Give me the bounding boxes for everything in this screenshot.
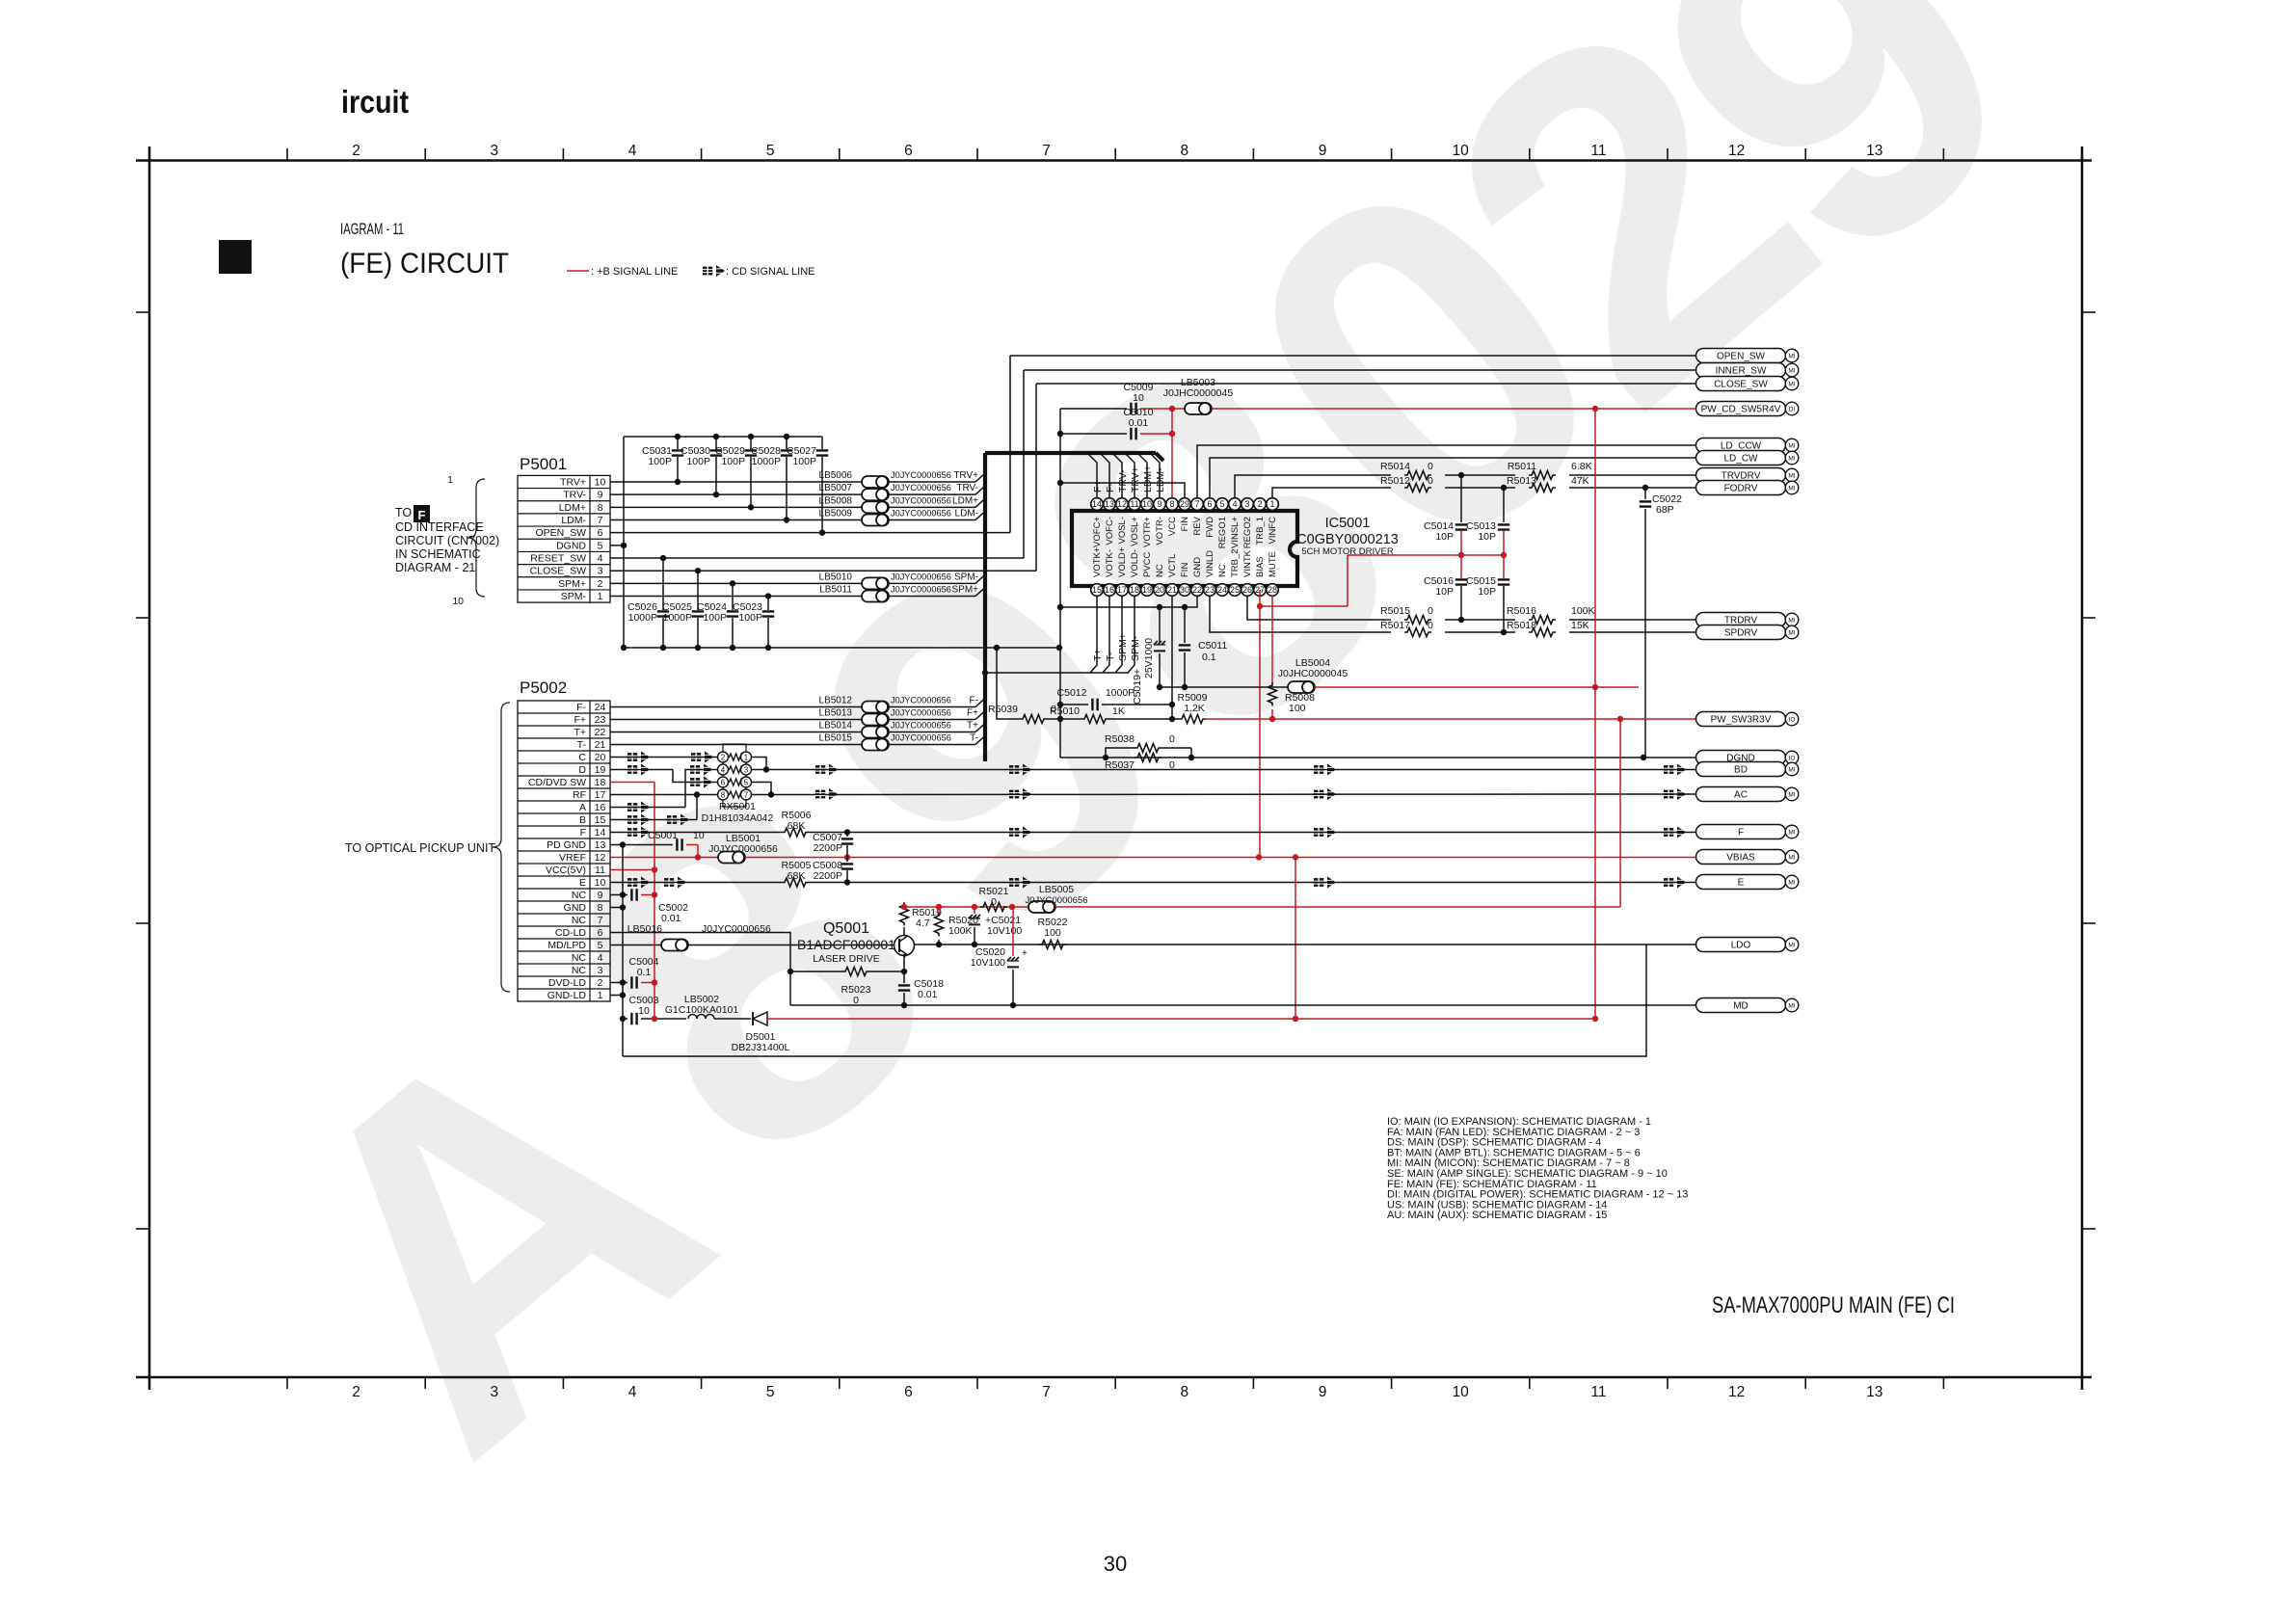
svg-text:11: 11 <box>1590 143 1606 159</box>
svg-text:9: 9 <box>598 490 603 501</box>
svg-text:7: 7 <box>1042 1384 1051 1400</box>
svg-text:MI: MI <box>1788 382 1795 388</box>
svg-text:P5001: P5001 <box>520 455 567 473</box>
wire ground return box <box>623 945 1646 1056</box>
svg-text:68K: 68K <box>788 820 806 832</box>
svg-text:5: 5 <box>598 940 603 951</box>
svg-text:R5039: R5039 <box>988 704 1018 715</box>
svg-text:9: 9 <box>598 890 603 901</box>
resistor R5011 <box>1529 471 1556 480</box>
svg-text:7: 7 <box>598 915 603 926</box>
capacitor C5030 <box>715 437 717 449</box>
svg-text:1: 1 <box>598 990 603 1001</box>
svg-text:SPM-: SPM- <box>954 572 978 582</box>
wire MD line <box>790 1004 1696 1006</box>
resistor R5022 <box>1039 941 1066 949</box>
svg-text:17: 17 <box>1117 585 1127 595</box>
svg-text:9: 9 <box>1319 143 1327 159</box>
capacitor C5019 electrolytic <box>1159 607 1161 642</box>
svg-text:MI: MI <box>1788 830 1795 837</box>
svg-text:1: 1 <box>744 753 749 761</box>
IC5001 pin 1 (VINFC) <box>1267 498 1279 511</box>
svg-text:VREF: VREF <box>559 852 586 864</box>
svg-text:J0JYC0000656: J0JYC0000656 <box>891 495 951 505</box>
svg-text:INNER_SW: INNER_SW <box>1716 366 1767 377</box>
svg-text:11: 11 <box>1590 1384 1606 1400</box>
IC5001 pin 17 (VOLD+) <box>1116 584 1129 597</box>
svg-text:TRV+: TRV+ <box>1130 466 1141 492</box>
flag F <box>1696 825 1799 839</box>
svg-text:1.2K: 1.2K <box>1184 703 1205 714</box>
svg-text:ircuit: ircuit <box>341 84 409 120</box>
IC5001 pin 29 (FIN) <box>1179 498 1191 511</box>
svg-text:F-: F- <box>970 696 978 706</box>
inductor LB5008 <box>862 501 889 513</box>
svg-text:CIRCUIT (CN7002): CIRCUIT (CN7002) <box>395 534 499 547</box>
svg-text:CD INTERFACE: CD INTERFACE <box>395 520 484 534</box>
wire IC branch F- <box>1101 454 1109 497</box>
svg-text:J0JYC0000656: J0JYC0000656 <box>1026 895 1088 906</box>
svg-text:VOTR-: VOTR- <box>1155 517 1165 545</box>
svg-text:0.01: 0.01 <box>1129 417 1149 429</box>
svg-text:0: 0 <box>1428 605 1433 617</box>
svg-text:12: 12 <box>595 852 606 864</box>
IC5001 pin 19 (PVCC) <box>1141 584 1154 597</box>
svg-text:13: 13 <box>595 839 606 851</box>
wire OPEN_SW row <box>610 532 1010 534</box>
wire IC bottom branch T+/T-/SPM+/SPM- <box>1090 596 1097 673</box>
wire TRV+ row <box>610 481 862 483</box>
wire A row to RX row2 <box>610 807 685 809</box>
flag PW_CD_SW5R4V <box>1696 402 1799 416</box>
svg-text:DI: DI <box>1789 407 1796 413</box>
svg-text:OPEN_SW: OPEN_SW <box>1717 352 1766 362</box>
resistor R5005 <box>782 878 809 887</box>
svg-text:68K: 68K <box>788 870 806 882</box>
svg-text:10: 10 <box>1142 499 1152 509</box>
bus wire (thick) horizontal to IC <box>985 451 1156 455</box>
svg-text:2: 2 <box>598 977 603 989</box>
svg-text:13: 13 <box>1105 499 1114 509</box>
IC5001 pin 3 (REGO2) <box>1241 498 1254 511</box>
svg-text:12: 12 <box>1728 143 1745 159</box>
svg-text:4: 4 <box>721 765 726 774</box>
svg-text:LDM-: LDM- <box>561 515 586 526</box>
svg-text:J0JYC0000656: J0JYC0000656 <box>891 733 951 743</box>
svg-text:R5038: R5038 <box>1105 733 1135 745</box>
wire red bias node <box>1460 531 1462 578</box>
svg-text:AC: AC <box>1734 790 1748 801</box>
svg-text:F+: F+ <box>574 714 586 726</box>
svg-text:5: 5 <box>766 1384 775 1400</box>
capacitor C5027 <box>821 437 823 449</box>
transistor Q5001 <box>894 936 915 956</box>
svg-text:D1H81034A042: D1H81034A042 <box>702 812 774 824</box>
flag INNER_SW <box>1696 363 1799 378</box>
svg-text:25V1000: 25V1000 <box>1143 638 1155 678</box>
svg-text:NC: NC <box>1155 564 1165 577</box>
IC5001 pin 11 (VOSL+) <box>1129 498 1141 511</box>
svg-text:GND-LD: GND-LD <box>547 990 587 1001</box>
capacitor C5014 <box>1460 475 1462 522</box>
svg-text:IO: IO <box>1789 756 1796 762</box>
capacitor C5001 <box>677 838 681 850</box>
svg-text:0: 0 <box>1428 475 1433 487</box>
svg-text:FIN: FIN <box>1180 517 1190 531</box>
wire PW_SW3R3V red line <box>1206 718 1696 720</box>
wire IC branch F+ <box>1088 454 1097 497</box>
svg-text:4: 4 <box>598 553 603 565</box>
svg-text:DGND: DGND <box>556 540 586 551</box>
svg-text:47K: 47K <box>1571 475 1589 487</box>
svg-text:LASER DRIVE: LASER DRIVE <box>813 953 879 965</box>
IC5001 pin 10 (VOTR+) <box>1141 498 1154 511</box>
resistor R5015 <box>1404 616 1431 625</box>
svg-text:R5016: R5016 <box>1507 605 1536 617</box>
svg-text:MI: MI <box>1788 855 1795 862</box>
svg-text:2: 2 <box>352 143 360 159</box>
wire LD_CW from pin 6 <box>1210 458 1696 497</box>
wire C row <box>610 757 717 758</box>
svg-text:26: 26 <box>1242 585 1252 595</box>
svg-text:0: 0 <box>1169 733 1175 745</box>
svg-text:NC: NC <box>572 965 587 976</box>
svg-text:6: 6 <box>904 143 913 159</box>
svg-text:6: 6 <box>598 527 603 539</box>
border frame <box>136 159 2092 162</box>
svg-text:VINSL+: VINSL+ <box>1230 517 1241 548</box>
IC5001 pin 23 (VINLD) <box>1204 584 1216 597</box>
svg-text:7: 7 <box>1042 143 1051 159</box>
svg-text:LB5005: LB5005 <box>1039 884 1074 895</box>
svg-text:25: 25 <box>1230 585 1240 595</box>
svg-text:REGO1: REGO1 <box>1217 517 1228 548</box>
svg-text:R5011: R5011 <box>1508 461 1536 472</box>
inductor LB5013 <box>862 714 889 726</box>
svg-text:29: 29 <box>1180 499 1189 509</box>
svg-text:VOFC-: VOFC- <box>1105 517 1115 545</box>
wire CD-LD row <box>610 933 790 1006</box>
svg-text:VOFC+: VOFC+ <box>1092 517 1103 547</box>
svg-text:MI: MI <box>1788 880 1795 887</box>
wire CLOSE_SW net vertical <box>1035 384 1037 571</box>
IC5001 pin 25 (TRB_2) <box>1229 584 1241 597</box>
wire VREF red row <box>610 857 718 859</box>
svg-text:GND: GND <box>564 902 587 914</box>
svg-text:0.01: 0.01 <box>918 989 938 1000</box>
svg-text:28: 28 <box>1268 585 1277 595</box>
svg-text:15K: 15K <box>1571 620 1589 631</box>
svg-text:11: 11 <box>1130 499 1138 509</box>
wire CD/DVD SW red <box>610 782 654 784</box>
inductor LB5002 coil <box>688 1015 714 1020</box>
wire CLOSE_SW row <box>610 570 1036 572</box>
wire F+ row <box>610 719 862 721</box>
svg-text:T+: T+ <box>967 721 978 732</box>
svg-text:19: 19 <box>1142 585 1152 595</box>
flag CLOSE_SW <box>1696 377 1799 391</box>
wire VCC rail red vertical <box>654 783 655 1020</box>
wire emitter line LDO <box>915 944 1697 945</box>
svg-text:21: 21 <box>1167 585 1177 595</box>
wire laser bias red line <box>904 906 1029 908</box>
svg-text:VINTK: VINTK <box>1242 549 1253 577</box>
svg-text:LDM+: LDM+ <box>1142 466 1154 492</box>
wire ground rail x646 <box>622 845 624 1057</box>
svg-text:LB5011: LB5011 <box>819 585 852 596</box>
IC5001 pin 14 (VOFC+) <box>1091 498 1104 511</box>
svg-text:J0JHC0000045: J0JHC0000045 <box>1163 387 1234 399</box>
svg-text:10: 10 <box>638 1005 650 1017</box>
svg-text:R5013: R5013 <box>1507 475 1536 487</box>
svg-text:OPEN_SW: OPEN_SW <box>535 527 586 539</box>
IC5001 pin 21 (VCTL) <box>1166 584 1179 597</box>
wire RESET_SW row <box>610 557 1024 559</box>
svg-text:J0JYC0000656: J0JYC0000656 <box>891 696 951 705</box>
svg-text:RESET_SW: RESET_SW <box>530 553 586 565</box>
svg-text:LB5012: LB5012 <box>819 696 853 706</box>
svg-text:17: 17 <box>595 789 606 801</box>
svg-text:CLOSE_SW: CLOSE_SW <box>1714 380 1768 390</box>
IC5001 pin 7 (REV) <box>1191 498 1204 511</box>
capacitor C5021 electrolytic <box>974 907 975 914</box>
svg-text:(FE) CIRCUIT: (FE) CIRCUIT <box>340 248 509 279</box>
svg-text:B: B <box>579 814 586 826</box>
wire D row <box>610 769 673 771</box>
svg-text:J0JYC0000656: J0JYC0000656 <box>891 572 951 581</box>
svg-text:0: 0 <box>1051 704 1056 715</box>
svg-text:1000P: 1000P <box>1106 687 1135 699</box>
wire VBIAS red line <box>745 857 1696 859</box>
diode D5001 <box>753 1012 767 1025</box>
wire DVD-LD row / capacitor C5004 <box>610 982 627 984</box>
svg-text:F: F <box>580 827 586 838</box>
svg-text:1: 1 <box>447 474 453 486</box>
svg-text:20: 20 <box>1155 585 1164 595</box>
svg-text:10P: 10P <box>1478 531 1496 543</box>
wire LB5004 red output <box>1315 686 1639 688</box>
svg-text:DB2J31400L: DB2J31400L <box>732 1042 790 1053</box>
svg-text:E: E <box>579 877 586 889</box>
svg-text:13: 13 <box>1866 143 1882 159</box>
svg-text:0: 0 <box>1428 620 1433 631</box>
IC5001 pin 22 (GND) <box>1191 584 1204 597</box>
svg-text:100P: 100P <box>648 456 672 467</box>
wire IC branch TRV+ <box>1126 454 1135 497</box>
inductor LB5012 <box>862 702 889 713</box>
svg-text:LDM-: LDM- <box>1155 467 1166 492</box>
svg-text:R5018: R5018 <box>1507 620 1536 631</box>
resistor R5012 <box>1404 484 1431 492</box>
capacitor C5016 <box>1455 579 1467 584</box>
svg-text:1000P: 1000P <box>752 456 781 467</box>
inductor LB5015 <box>862 739 889 751</box>
wire aux rail x1100 <box>1059 409 1061 758</box>
svg-text:B1ADCF000001: B1ADCF000001 <box>797 937 895 952</box>
svg-text:8: 8 <box>1180 1384 1188 1400</box>
wire TRVDRV from pin 4 <box>1235 475 1391 497</box>
capacitor C5008 <box>846 858 848 863</box>
IC5001 pin 16 (VOTK-) <box>1104 584 1116 597</box>
flag TRVDRV <box>1696 468 1799 483</box>
svg-text:R5015: R5015 <box>1380 605 1410 617</box>
svg-text:9: 9 <box>1157 499 1161 509</box>
capacitor C5011 <box>1184 607 1186 643</box>
IC5001 pin 6 (FWD) <box>1204 498 1216 511</box>
svg-text:NC: NC <box>572 952 587 964</box>
svg-text:3: 3 <box>598 965 603 976</box>
svg-text:T-: T- <box>577 739 587 751</box>
svg-text:10: 10 <box>595 477 606 489</box>
legend CD signal line <box>703 265 725 277</box>
svg-text:0.1: 0.1 <box>637 967 652 978</box>
svg-text:68P: 68P <box>1656 504 1674 516</box>
svg-text:1: 1 <box>1269 499 1274 509</box>
capacitor C5028 <box>786 437 788 449</box>
svg-text:LDO: LDO <box>1731 941 1751 951</box>
wire DGND rail vertical <box>623 437 625 545</box>
svg-text:: +B SIGNAL LINE: : +B SIGNAL LINE <box>591 266 678 278</box>
svg-text:30: 30 <box>1180 585 1189 595</box>
wire DGND main line <box>1060 757 1696 758</box>
capacitor C5022 <box>1644 488 1646 499</box>
svg-text:VOTR+: VOTR+ <box>1142 517 1153 547</box>
IC5001 pin 9 (VOTR-) <box>1154 498 1166 511</box>
wire SPDRV from pin 23 <box>1210 596 1391 632</box>
svg-text:18: 18 <box>595 777 606 788</box>
svg-text:TO: TO <box>395 506 412 519</box>
svg-text:9: 9 <box>1319 1384 1327 1400</box>
svg-text:NC: NC <box>572 915 587 926</box>
svg-text:14: 14 <box>1092 499 1102 509</box>
wire DGND pin5 stub <box>610 545 624 546</box>
wire INNER_SW net vertical <box>1023 370 1025 558</box>
wire SPM+ row <box>610 582 862 584</box>
svg-text:MI: MI <box>1788 943 1795 949</box>
svg-text:T+: T+ <box>574 727 586 738</box>
svg-text:J0JYC0000656: J0JYC0000656 <box>702 923 771 935</box>
svg-text:IAGRAM - 11: IAGRAM - 11 <box>340 220 404 238</box>
flag LDO <box>1696 938 1799 952</box>
svg-text:SPM+: SPM+ <box>951 585 978 596</box>
IC5001 pin 2 (TRB_1) <box>1254 498 1267 511</box>
svg-text:3: 3 <box>598 566 603 577</box>
wire NC9 row / capacitor C5002 <box>610 894 627 896</box>
svg-text:T-: T- <box>970 733 978 744</box>
wire RX output row3 to AC line <box>751 783 771 795</box>
svg-text:7: 7 <box>598 515 603 526</box>
svg-text:12: 12 <box>1117 499 1127 509</box>
svg-text:LDM+: LDM+ <box>952 495 978 506</box>
svg-text:TRV-: TRV- <box>956 483 978 493</box>
svg-text:0: 0 <box>1428 461 1433 472</box>
svg-text:6: 6 <box>598 927 603 939</box>
svg-text:MD/LPD: MD/LPD <box>547 940 586 951</box>
svg-text:2200P: 2200P <box>814 870 842 882</box>
svg-text:4: 4 <box>628 1384 637 1400</box>
svg-text:18: 18 <box>1130 585 1139 595</box>
wire F- row <box>610 706 862 708</box>
svg-text:LDM-: LDM- <box>955 509 978 519</box>
svg-text:15: 15 <box>595 814 606 826</box>
inductor LB5006 <box>862 476 889 488</box>
svg-text:12: 12 <box>1728 1384 1745 1400</box>
svg-text:G1C100KA0101: G1C100KA0101 <box>665 1004 739 1016</box>
svg-text:REV: REV <box>1192 516 1203 535</box>
svg-text:VOLD+: VOLD+ <box>1117 546 1128 577</box>
svg-text:J0JYC0000656: J0JYC0000656 <box>891 708 951 718</box>
svg-text:NC: NC <box>572 890 587 901</box>
svg-text:AU: MAIN (AUX): SCHEMATIC DIAG: AU: MAIN (AUX): SCHEMATIC DIAGRAM - 15 <box>1387 1210 1607 1221</box>
IC5001 pin 4 (VINSL+) <box>1229 498 1241 511</box>
wire red vertical PW_SW3R3V branch <box>1619 719 1621 907</box>
resistor R5006 <box>782 828 809 837</box>
resistor R5008 <box>1271 596 1273 682</box>
wire T- row <box>610 744 862 746</box>
svg-text:MD: MD <box>1733 1001 1749 1012</box>
capacitor C5029 <box>750 437 752 449</box>
inductor LB5014 <box>862 727 889 738</box>
svg-text:LB5016: LB5016 <box>627 923 662 935</box>
svg-text:: CD SIGNAL LINE: : CD SIGNAL LINE <box>726 266 815 278</box>
svg-text:1000P: 1000P <box>628 612 657 624</box>
resistor R5016 <box>1529 616 1556 625</box>
wire OPEN_SW net vertical <box>1009 356 1011 533</box>
svg-text:C5001: C5001 <box>648 830 678 841</box>
wire FIN pin29 line <box>1060 483 1185 497</box>
svg-text:3: 3 <box>490 1384 498 1400</box>
resistor R5039 <box>997 648 1020 719</box>
legend +B signal line <box>567 270 589 272</box>
resistor R5010 <box>1060 718 1081 720</box>
resistor R5017 <box>1404 628 1431 637</box>
svg-text:SPM-: SPM- <box>561 591 587 602</box>
svg-text:TRB_2: TRB_2 <box>1230 548 1241 577</box>
svg-text:SPM-: SPM- <box>1130 635 1141 661</box>
svg-text:J0JYC0000656: J0JYC0000656 <box>891 509 951 519</box>
svg-text:30: 30 <box>1104 1552 1127 1576</box>
svg-text:NC: NC <box>1217 564 1228 577</box>
svg-text:F: F <box>1738 828 1744 838</box>
svg-text:CLOSE_SW: CLOSE_SW <box>530 566 586 577</box>
svg-text:TRV-: TRV- <box>563 490 586 501</box>
svg-text:10: 10 <box>452 596 464 607</box>
wire laser supply red line <box>767 1018 1595 1020</box>
svg-text:MI: MI <box>1788 618 1795 625</box>
wire RX output row1 to D row <box>751 758 766 770</box>
svg-text:GND: GND <box>1192 557 1203 577</box>
svg-text:10: 10 <box>693 830 705 841</box>
svg-text:MI: MI <box>1788 630 1795 637</box>
flag FODRV <box>1696 481 1799 495</box>
svg-text:SA-MAX7000PU MAIN (FE) CI: SA-MAX7000PU MAIN (FE) CI <box>1712 1292 1955 1318</box>
svg-text:R5012: R5012 <box>1380 475 1410 487</box>
svg-text:VCC(5V): VCC(5V) <box>546 865 586 876</box>
wire top bypass bus <box>624 436 822 438</box>
svg-text:22: 22 <box>1192 585 1202 595</box>
svg-text:CD/DVD SW: CD/DVD SW <box>528 777 586 788</box>
svg-text:MI: MI <box>1788 368 1795 375</box>
svg-text:TO OPTICAL PICKUP UNIT: TO OPTICAL PICKUP UNIT <box>345 841 495 855</box>
flag BD <box>1696 762 1799 777</box>
IC5001 pin 27 (BIAS) <box>1254 584 1267 597</box>
capacitor C5020 electrolytic <box>1012 907 1014 956</box>
inductor LB5016 <box>661 940 688 951</box>
wire AC line <box>751 793 1696 796</box>
svg-text:J0JHC0000045: J0JHC0000045 <box>1278 668 1348 679</box>
flag OPEN_SW <box>1696 349 1799 363</box>
svg-text:7: 7 <box>1194 499 1199 509</box>
